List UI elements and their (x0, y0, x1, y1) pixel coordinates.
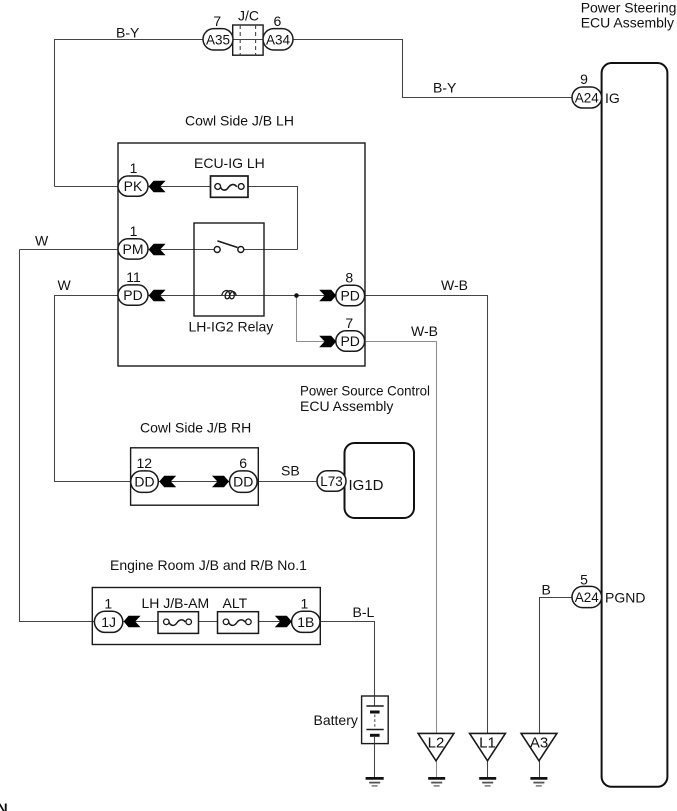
svg-text:B: B (542, 582, 551, 598)
svg-text:N: N (0, 801, 8, 811)
svg-text:W: W (58, 277, 72, 293)
svg-text:Cowl Side J/B RH: Cowl Side J/B RH (140, 420, 251, 436)
svg-text:W-B: W-B (441, 277, 468, 293)
svg-text:PK: PK (124, 178, 143, 194)
svg-text:ECU-IG LH: ECU-IG LH (194, 155, 265, 171)
svg-text:1: 1 (301, 596, 309, 612)
svg-text:7: 7 (213, 13, 221, 29)
svg-text:IG1D: IG1D (349, 477, 384, 494)
svg-text:6: 6 (274, 13, 282, 29)
svg-text:Engine Room J/B and R/B No.1: Engine Room J/B and R/B No.1 (110, 557, 307, 573)
svg-text:1B: 1B (297, 614, 314, 630)
svg-text:W: W (35, 233, 49, 249)
svg-text:PD: PD (340, 288, 359, 304)
svg-text:1: 1 (130, 223, 138, 239)
svg-text:1: 1 (130, 160, 138, 176)
svg-text:6: 6 (239, 455, 247, 471)
svg-text:Power Steering: Power Steering (581, 0, 677, 16)
svg-text:LH-IG2 Relay: LH-IG2 Relay (189, 319, 274, 335)
svg-text:11: 11 (126, 269, 141, 285)
svg-text:1: 1 (104, 596, 112, 612)
svg-text:8: 8 (345, 269, 353, 285)
svg-text:L1: L1 (479, 735, 496, 752)
svg-text:L73: L73 (320, 474, 343, 489)
svg-text:L2: L2 (428, 735, 445, 752)
svg-text:IG: IG (605, 90, 620, 106)
svg-text:7: 7 (345, 315, 353, 331)
svg-text:A24: A24 (575, 590, 600, 605)
svg-text:1J: 1J (101, 614, 116, 630)
svg-text:5: 5 (580, 572, 588, 588)
svg-text:Power Source Control: Power Source Control (300, 383, 430, 399)
svg-text:9: 9 (580, 71, 588, 87)
svg-text:ECU Assembly: ECU Assembly (581, 15, 674, 31)
svg-text:LH J/B-AM: LH J/B-AM (142, 595, 210, 611)
svg-text:PGND: PGND (605, 590, 645, 606)
svg-text:A34: A34 (266, 32, 291, 47)
svg-text:A35: A35 (206, 32, 230, 47)
svg-text:B-L: B-L (353, 604, 375, 620)
svg-text:DD: DD (134, 474, 154, 490)
svg-text:DD: DD (233, 474, 253, 490)
svg-text:ECU Assembly: ECU Assembly (300, 398, 393, 414)
svg-text:PD: PD (123, 287, 142, 303)
svg-text:W-B: W-B (411, 323, 438, 339)
svg-text:SB: SB (281, 462, 300, 478)
svg-text:J/C: J/C (238, 7, 259, 23)
svg-text:Battery: Battery (314, 712, 358, 728)
svg-text:PD: PD (340, 333, 359, 349)
svg-text:12: 12 (137, 455, 153, 471)
svg-text:B-Y: B-Y (433, 79, 457, 95)
svg-text:ALT: ALT (223, 595, 248, 611)
svg-text:Cowl Side J/B LH: Cowl Side J/B LH (185, 113, 294, 129)
svg-text:A24: A24 (575, 91, 600, 106)
svg-text:PM: PM (123, 241, 144, 257)
svg-text:A3: A3 (530, 735, 548, 752)
svg-text:B-Y: B-Y (116, 24, 140, 40)
